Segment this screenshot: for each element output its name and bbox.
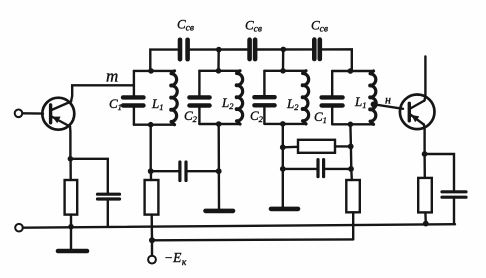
svg-text:н: н: [385, 93, 391, 107]
junction on tank4 stub (C): [348, 166, 354, 172]
junction tank4 bottom: [348, 122, 354, 128]
capacitor C1' (tank4): [322, 97, 343, 105]
tank3 left vertical lower: [263, 107, 265, 124]
svg-text:С1: С1: [109, 96, 122, 112]
wire emitter to R5: [423, 154, 426, 178]
tank1 left vertical upper: [133, 71, 135, 96]
wire to R2 top: [150, 171, 153, 180]
wire: [282, 147, 284, 169]
wire Q1 collector to node m: [71, 85, 134, 101]
wire R1 bottom to bus: [70, 215, 72, 227]
junction neutralization C: [280, 166, 286, 172]
inductor L1 (tank1): [169, 71, 177, 125]
tank2 left vertical upper: [198, 71, 200, 96]
wire R3 to tank4 stub: [335, 145, 351, 147]
wire to neutralizing resistor: [283, 146, 298, 149]
wire to -Ek terminal: [151, 240, 153, 255]
tank4 top wire: [332, 70, 373, 72]
wire common bus: [23, 224, 455, 228]
capacitor C1 (tank1): [123, 97, 144, 105]
wire emitter node to output cap: [425, 154, 454, 190]
wire stub to tank3 top: [282, 49, 285, 70]
capacitor Ccb2: [250, 40, 256, 59]
junction tank4 to Q2 base: [371, 101, 377, 107]
tank3 bottom wire: [264, 123, 306, 125]
coupling wire (top): [150, 49, 351, 71]
capacitor C3 (neutralizing, horizontal): [318, 160, 351, 177]
tank1 left vertical lower: [133, 108, 135, 125]
wire Q1 emitter down: [69, 127, 72, 159]
junction at C12: [148, 168, 154, 174]
svg-text:Ссв: Ссв: [311, 18, 328, 35]
inductor L1' (tank4): [368, 71, 376, 124]
inductor L2' (tank3): [301, 71, 309, 124]
junction tank3 bottom: [280, 121, 286, 127]
svg-text:−Eк: −Eк: [164, 250, 187, 268]
svg-text:Ссв: Ссв: [245, 18, 262, 35]
junction tank1 bottom: [148, 122, 154, 128]
junction R5 on bus: [423, 221, 429, 227]
svg-text:L1: L1: [151, 96, 163, 112]
tank2 top wire: [199, 70, 240, 72]
svg-text:L1: L1: [354, 94, 366, 110]
resistor R3 (neutralizing, horizontal): [298, 140, 335, 153]
wire Q2 emitter down: [423, 125, 426, 155]
junction on tank4 stub (R): [348, 144, 354, 150]
wire tank4 to Q2 base: [374, 104, 404, 109]
svg-text:С2: С2: [184, 108, 198, 124]
junction C12 right: [216, 168, 222, 174]
wire emitter node to bypass cap: [70, 159, 107, 193]
svg-text:m: m: [106, 67, 118, 86]
junction tank2 top: [216, 68, 222, 74]
junction emitter node: [68, 156, 74, 162]
wire tank3 to ground: [282, 169, 284, 207]
tank4 left vertical lower: [331, 108, 333, 125]
wire R5 bottom to bus: [424, 212, 427, 223]
junction Q2 emitter node: [422, 151, 428, 157]
input terminal (top left): [15, 110, 23, 118]
resistor R4 (vertical): [346, 180, 360, 212]
tank1 bottom wire: [134, 123, 175, 125]
tank4 left vertical upper: [331, 71, 333, 96]
capacitor C-emitter bypass: [98, 194, 120, 199]
wire tank2 bottom to ground: [217, 124, 220, 209]
svg-text:С2: С2: [250, 108, 264, 124]
wire Q2 collector up: [423, 56, 426, 100]
bottom terminal (bus left): [15, 224, 23, 232]
capacitor Ccb3: [314, 40, 320, 59]
wire bypass cap to bus: [107, 200, 109, 227]
capacitor C2' (tank3): [254, 97, 274, 105]
wire R4 bottom to -Ek rail corner: [352, 212, 354, 239]
junction Ccb wire to tank2: [216, 47, 222, 53]
svg-text:С1: С1: [314, 109, 327, 125]
junction tank2 bottom: [216, 121, 222, 127]
junction tank3 top: [280, 68, 286, 74]
wire tank1 bottom to R2: [149, 125, 151, 172]
wire input terminal to Q1 base: [22, 112, 43, 115]
resistor R2: [145, 180, 159, 215]
tank4 bottom wire: [332, 123, 373, 125]
svg-text:Ссв: Ссв: [177, 17, 194, 34]
tank2 left vertical lower: [198, 108, 200, 124]
transistor Q1: [42, 98, 74, 130]
tank3 top wire: [264, 70, 306, 72]
junction tank4 top: [348, 68, 354, 74]
wire R2 bottom to -Ek rail: [150, 215, 153, 241]
junction tank1 top: [148, 68, 154, 74]
wire bus to ground: [70, 227, 72, 250]
resistor R1 (emitter): [65, 180, 78, 215]
wire to neutralizing capacitor: [283, 168, 317, 170]
transistor Q2: [400, 95, 435, 130]
tank3 left vertical upper: [263, 71, 265, 96]
capacitor C12 (between tank1/tank2 bottoms): [151, 162, 219, 181]
tank1 top wire: [134, 70, 175, 72]
wire tank4 bottom to R4: [350, 124, 351, 180]
-Ek terminal: [148, 256, 156, 264]
wire emitter node to resistor: [69, 159, 71, 180]
capacitor C-out: [442, 192, 466, 197]
wire tank3 bottom down: [282, 124, 284, 147]
capacitor C2 (tank2): [189, 97, 209, 105]
resistor R5 (output emitter): [418, 178, 432, 213]
wire output cap to bus: [453, 199, 455, 225]
tank2 bottom wire: [199, 123, 240, 125]
junction neutralization R: [280, 144, 286, 150]
svg-text:L2: L2: [221, 95, 234, 111]
junction on -Ek rail: [149, 237, 155, 243]
ground (input side): [58, 249, 87, 254]
-Ek rail: [152, 238, 353, 241]
wire stub to tank2 top: [217, 50, 220, 71]
ground (tank3): [271, 207, 298, 212]
inductor L2 (tank2): [235, 71, 243, 124]
ground (tank2): [206, 209, 234, 214]
svg-text:L2: L2: [286, 96, 299, 112]
junction Ccb wire to tank3: [281, 47, 287, 53]
capacitor Ccb1: [180, 40, 188, 59]
junction on bus: [68, 224, 74, 230]
